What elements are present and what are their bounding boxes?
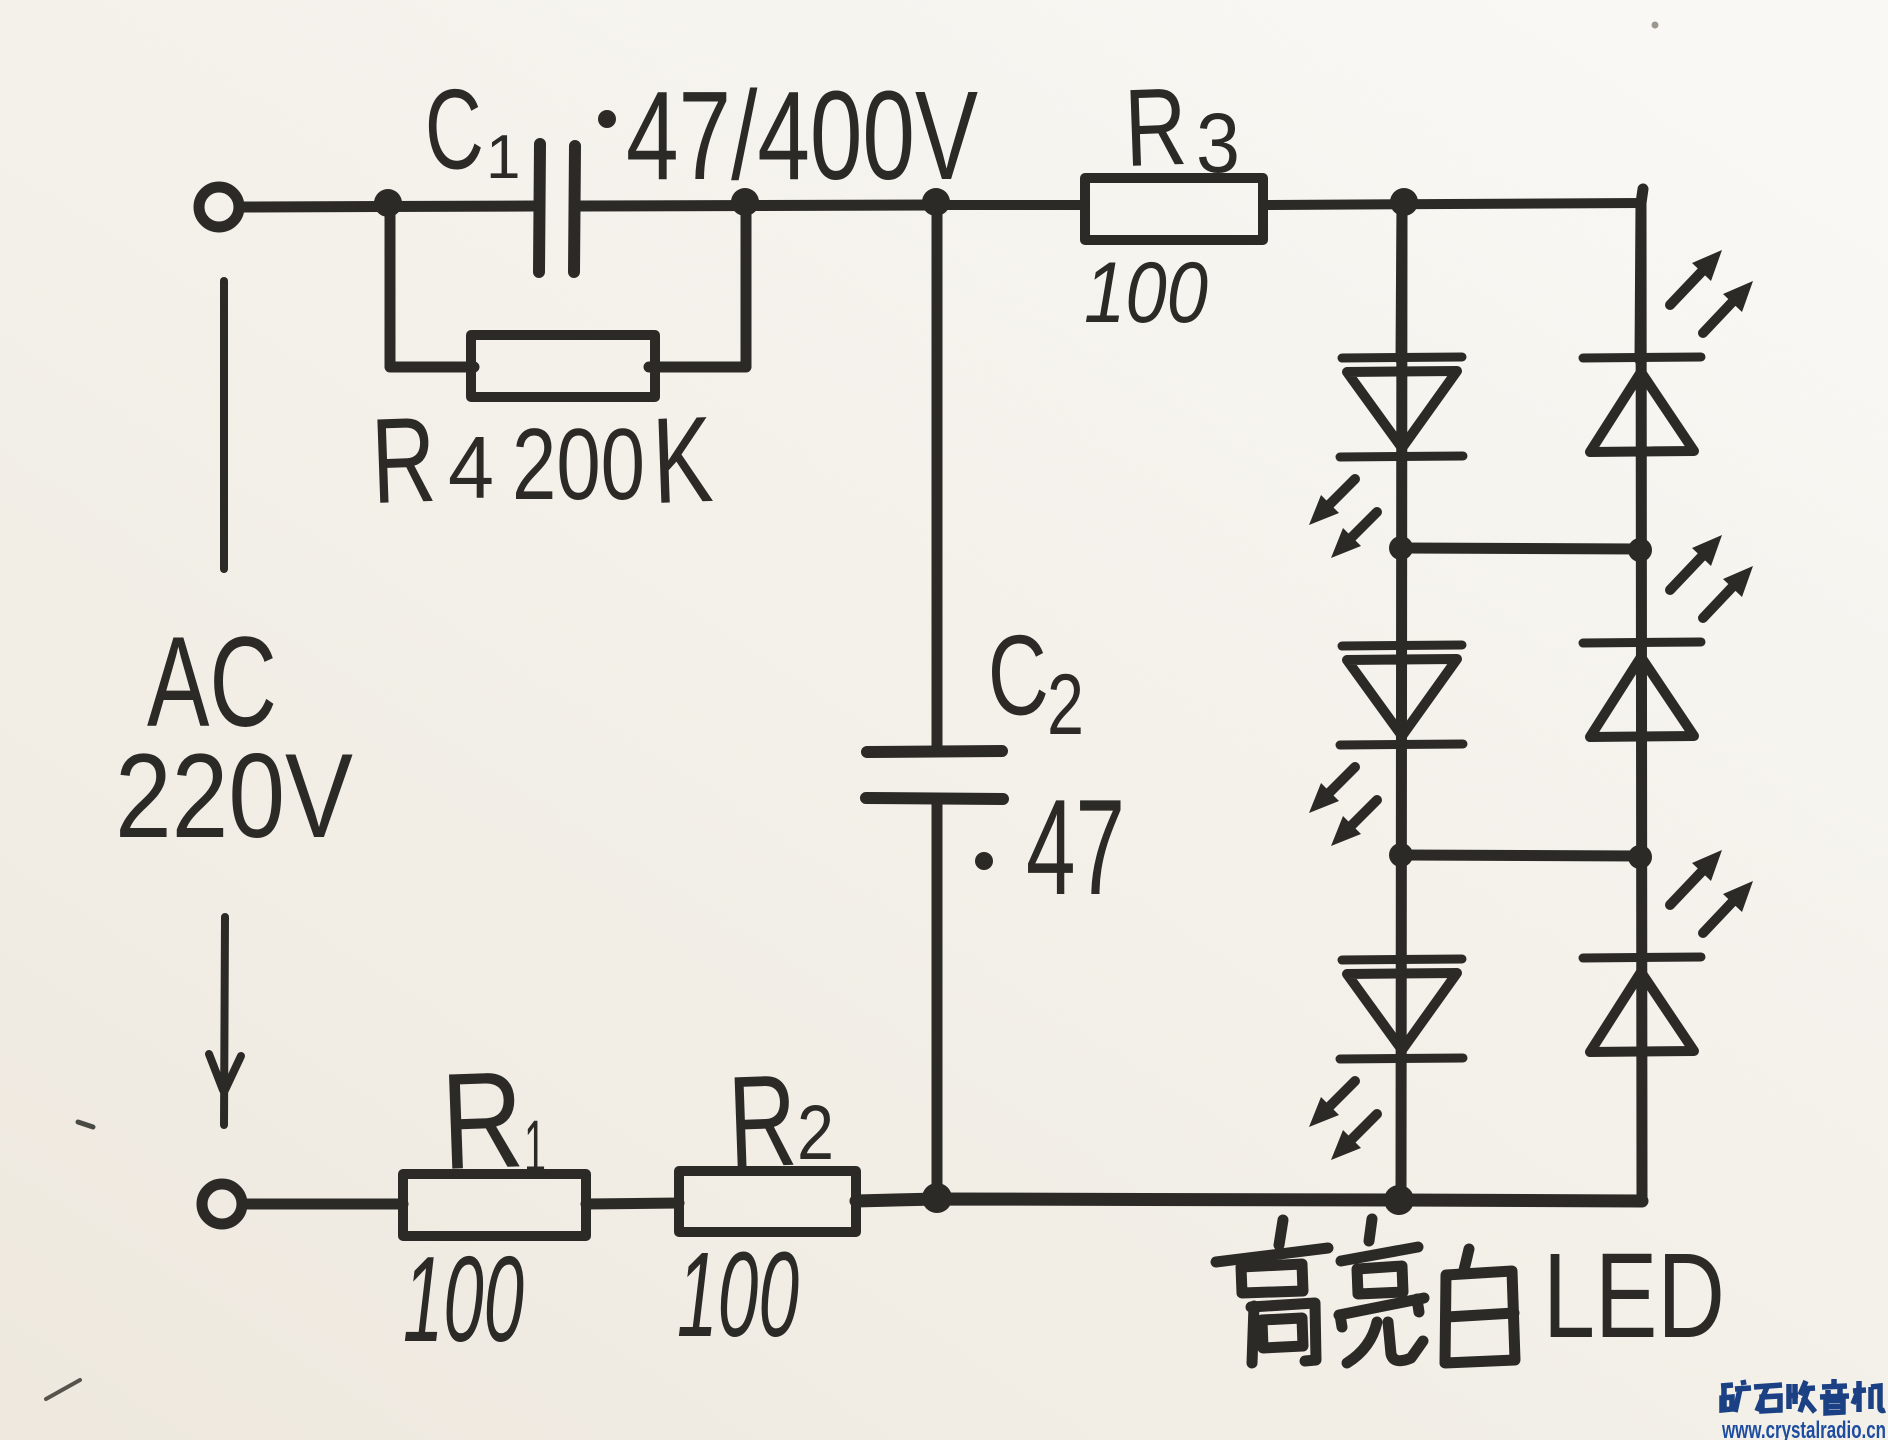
svg-text:47/400V: 47/400V [626,65,978,206]
wire top rail mid [581,205,938,206]
LED D5 (right chain) [1583,535,1753,737]
node tie2 right [1628,845,1652,869]
capacitor C1 [539,144,540,272]
svg-text:K: K [650,391,715,529]
resistor R3 [1085,178,1263,240]
wire to R3 [938,200,1085,210]
svg-text:2: 2 [1047,657,1084,753]
node tie1 left [1389,536,1413,560]
wire top-right corner down [1640,189,1643,360]
svg-text:C: C [985,611,1052,741]
AC source arrow lower segment [224,917,225,1125]
svg-text:C: C [422,65,487,195]
node junction J1 [374,189,402,217]
resistor R2 [679,1171,856,1232]
svg-text:1: 1 [486,123,520,192]
node junction J6 [1384,1185,1414,1215]
wire top rail left [241,206,534,207]
wire R1-R2 [586,1203,679,1204]
svg-text:100: 100 [1084,245,1208,341]
label 白 (hand-drawn) [1445,1249,1515,1363]
wire R3 to corner [1263,203,1641,205]
resistor R4 [471,335,655,397]
LED D1 (left chain) [1309,357,1463,558]
wire bottom rail mid [856,1199,1398,1201]
LED D3 (left chain) [1309,959,1463,1160]
label 高 (hand-drawn) [1216,1220,1328,1363]
AC source arrowhead [209,1054,241,1090]
label .47 value of C2 [975,852,993,870]
wire bottom rail left [244,1199,403,1210]
svg-text:47: 47 [1026,771,1125,923]
wire bottom rail right [1398,1200,1642,1201]
wire LED tie 1 [1401,548,1640,549]
wire left LED chain [1401,210,1402,1200]
svg-text:R: R [369,391,438,529]
terminal top-left [199,187,239,227]
stray pen mark left [78,1122,93,1127]
label .47/400V value of C1 [598,110,616,128]
node junction J3 [922,188,950,216]
svg-text:R: R [1123,65,1189,190]
svg-text:R: R [726,1047,799,1195]
node junction J5 [922,1183,952,1213]
node tie1 right [1628,538,1652,562]
svg-text:3: 3 [1196,96,1240,190]
wire C2 lower lead [932,800,943,1199]
AC source arrow upper segment [220,281,228,569]
LED D2 (left chain) [1309,645,1463,846]
stray pen mark bottom-left corner [46,1380,80,1399]
wire right LED chain [1641,203,1642,1201]
svg-text:LED: LED [1543,1227,1725,1363]
wire C2 upper lead [932,205,943,751]
terminal bottom-left [202,1184,242,1224]
LED D4 (right chain) [1583,250,1753,452]
svg-text:R: R [439,1043,526,1199]
wire R4 to J2 [649,207,746,367]
svg-text:100: 100 [403,1231,524,1367]
LED D6 (right chain) [1583,850,1753,1052]
svg-text:www.crystalradio.cn: www.crystalradio.cn [1721,1417,1886,1440]
svg-text:200: 200 [512,409,645,521]
svg-text:100: 100 [677,1226,799,1362]
node junction J2 [731,188,759,216]
svg-text:220V: 220V [115,729,353,863]
node junction J4 [1390,188,1418,216]
wire left LED chain top [1401,203,1402,360]
wire R4 branch [390,207,474,367]
wire LED tie 2 [1401,855,1640,856]
svg-text:2: 2 [797,1090,834,1176]
watermark logo 矿石收音机 [1721,1379,1885,1413]
stray speck top-right [1652,22,1659,29]
node tie2 left [1389,843,1413,867]
capacitor C2 [867,751,1002,752]
svg-text:4: 4 [448,418,494,517]
resistor R1 [403,1174,586,1236]
label 亮 (hand-drawn) [1339,1219,1424,1363]
svg-text:1: 1 [524,1105,546,1188]
